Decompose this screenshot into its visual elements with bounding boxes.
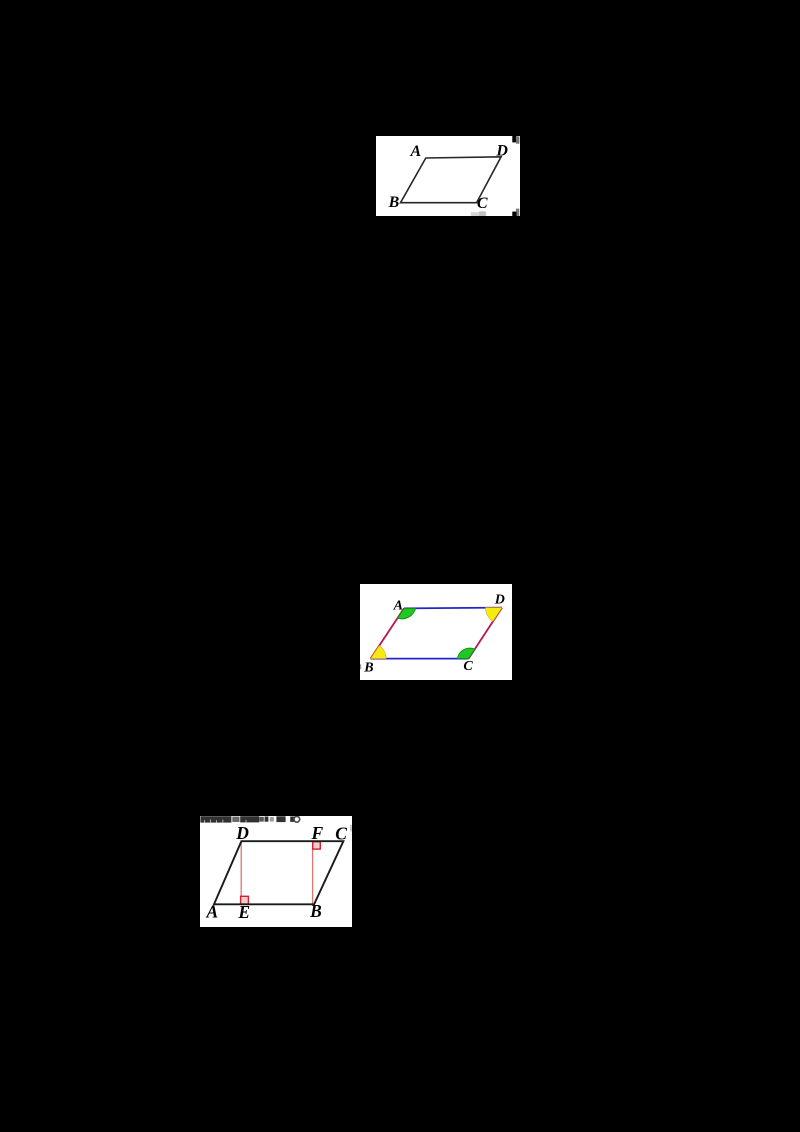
svg-text:C: C: [335, 823, 347, 843]
svg-text:B: B: [363, 660, 373, 675]
svg-text:A: A: [205, 901, 218, 921]
svg-text:B: B: [309, 901, 322, 921]
svg-text:D: D: [494, 592, 505, 607]
svg-text:E: E: [237, 902, 250, 922]
svg-text:C: C: [463, 659, 473, 674]
svg-text:C: C: [477, 195, 488, 212]
svg-text:D: D: [495, 142, 508, 159]
svg-text:B: B: [388, 193, 400, 210]
svg-text:A: A: [410, 143, 422, 160]
svg-text:F: F: [311, 823, 324, 843]
svg-text:A: A: [392, 598, 402, 613]
svg-text:D: D: [235, 822, 249, 842]
